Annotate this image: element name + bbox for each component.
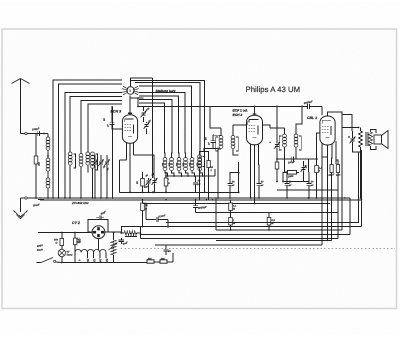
junction	[61, 232, 63, 234]
resistor R5 0.3M	[275, 162, 279, 169]
wire	[134, 155, 155, 160]
wire	[295, 148, 297, 160]
wire	[52, 190, 54, 198]
tube V3 CBL 1	[320, 116, 335, 145]
bus y234.3	[141, 233, 350, 235]
junction	[348, 136, 350, 138]
trimmer osc pad 1	[146, 179, 152, 186]
wire	[331, 173, 333, 241]
wire loop top right	[131, 80, 205, 155]
svg-text:CY 2: CY 2	[72, 221, 80, 225]
wire	[167, 220, 169, 227]
junction	[64, 197, 66, 199]
antenna terminal	[25, 132, 27, 134]
wire CY2 anode box	[88, 220, 108, 233]
mains switch	[36, 262, 41, 264]
junction	[167, 175, 169, 177]
band coil L10	[190, 158, 194, 162]
svg-text:344: 344	[161, 258, 166, 261]
dashed line	[121, 248, 395, 250]
B+ bus y226.7	[141, 226, 362, 228]
ground	[20, 198, 22, 212]
junction	[212, 199, 214, 201]
wire coil bottom	[179, 171, 182, 176]
wire	[47, 189, 49, 199]
junction	[276, 181, 278, 183]
wire switch left loop 3	[65, 93, 122, 198]
capacitor 0,1mF	[155, 217, 157, 222]
wire switch left loop 4	[70, 97, 122, 152]
wire	[232, 149, 234, 155]
junction	[165, 191, 167, 193]
wire	[204, 155, 206, 192]
wire	[142, 172, 144, 179]
junction	[35, 197, 37, 199]
junction	[194, 175, 196, 177]
wire	[204, 152, 209, 161]
wire	[69, 166, 71, 199]
wire	[41, 133, 49, 135]
wire	[143, 106, 145, 111]
junction	[344, 197, 346, 199]
coil L2b	[79, 154, 83, 158]
svg-text:Stellung kurz: Stellung kurz	[156, 89, 176, 93]
mains bottom wire	[62, 262, 130, 264]
wire switch left loop 1	[53, 80, 122, 190]
wire	[47, 134, 49, 138]
band switch S1 rotor	[127, 87, 135, 95]
wire	[94, 155, 96, 161]
junction	[58, 197, 60, 199]
trimmer 50pF	[144, 122, 150, 129]
wire y189.8 right	[277, 189, 338, 191]
wire grid cap V2	[254, 106, 256, 115]
wire	[152, 113, 154, 178]
junction	[69, 197, 71, 199]
trimmer tone	[350, 137, 356, 144]
wire	[360, 128, 362, 132]
switch contact 7	[135, 90, 139, 93]
resistor R4	[207, 161, 210, 168]
wire	[121, 232, 124, 234]
wire	[146, 122, 148, 123]
wire	[218, 149, 221, 198]
junction	[140, 233, 142, 235]
wire	[316, 138, 318, 166]
switch contact 1	[123, 93, 126, 95]
wire	[87, 166, 89, 173]
output transformer secondary	[369, 132, 373, 146]
wire	[191, 86, 193, 158]
wire	[233, 149, 239, 155]
IF2 primary	[283, 134, 287, 138]
resistor R9	[267, 218, 271, 226]
wire V1 pins	[126, 143, 128, 160]
resistor R8	[229, 218, 233, 226]
wire	[47, 151, 49, 159]
wire	[268, 213, 270, 218]
svg-text:5amp: 5amp	[67, 254, 74, 257]
wire	[154, 261, 160, 263]
wire route plate drop	[341, 128, 343, 231]
wire	[215, 198, 217, 230]
wire	[232, 125, 234, 136]
wire	[178, 96, 180, 158]
switch contact 2	[122, 90, 126, 93]
wire	[35, 164, 37, 198]
junction	[316, 197, 318, 199]
wire	[153, 160, 155, 178]
wire V3 pins	[321, 143, 323, 166]
wire	[220, 128, 222, 136]
bus y212.5	[196, 212, 338, 214]
wire	[135, 83, 200, 158]
wire spk	[371, 130, 377, 134]
wire det	[277, 158, 318, 160]
wire switch right loop 5	[139, 103, 165, 152]
power transformer winding	[75, 249, 106, 252]
svg-text:G: G	[168, 182, 170, 185]
wire	[165, 172, 167, 178]
speaker	[374, 135, 382, 144]
wire switch left loop 6	[88, 104, 122, 152]
band coil L11	[198, 158, 202, 162]
bus y244.9	[155, 244, 322, 246]
capacitor 5000pF	[193, 205, 198, 207]
wire coil bottom	[165, 171, 168, 176]
wire IF1 box	[213, 134, 221, 137]
trimmer osc pad 2	[152, 178, 158, 185]
wire	[283, 172, 288, 181]
bus y198	[115, 197, 350, 199]
wire bus y192 riser	[119, 160, 121, 192]
wire	[199, 168, 201, 200]
wire	[130, 261, 147, 263]
band coil L7	[170, 158, 174, 162]
field coil	[111, 240, 116, 255]
pilot lamp	[58, 249, 65, 256]
junction	[173, 175, 175, 177]
wire coil bottom	[192, 171, 195, 176]
wire	[148, 178, 150, 180]
junction	[152, 191, 154, 193]
svg-text:6V: 6V	[67, 251, 70, 254]
switch contact 3	[122, 88, 126, 91]
wire switch left loop 2	[59, 84, 123, 198]
junction	[204, 191, 206, 193]
wire coil bottom	[186, 171, 189, 176]
svg-text:pF: pF	[288, 184, 292, 187]
wire	[61, 233, 63, 239]
wire AVC riser	[276, 106, 278, 138]
junction	[153, 191, 155, 193]
wire antenna to coupling cap	[21, 133, 25, 135]
wire	[61, 257, 63, 263]
switch contact 4	[123, 86, 126, 88]
wire switch top loop	[131, 78, 153, 87]
wire	[296, 106, 302, 134]
wire	[230, 173, 239, 178]
bus y192	[120, 191, 239, 193]
trimmer 100pF	[141, 111, 147, 118]
wire tap	[36, 133, 44, 135]
IF1 primary	[219, 136, 223, 140]
wire	[106, 155, 108, 161]
junction	[100, 197, 102, 199]
wire	[164, 103, 167, 158]
bus y230	[216, 229, 342, 231]
wire	[276, 138, 278, 144]
band coil L6	[163, 158, 167, 162]
wire to CBL1 grid	[255, 105, 308, 107]
wire coil common	[165, 175, 215, 177]
junction	[74, 232, 76, 234]
wire plate V2	[263, 125, 271, 128]
wire route 4	[321, 166, 323, 245]
switch contact 6	[135, 88, 139, 91]
wire	[337, 173, 339, 239]
wire	[47, 172, 49, 179]
resistor mains R	[60, 239, 64, 246]
capacitor 4mF	[98, 215, 100, 219]
resistor R2	[164, 178, 168, 186]
rectifier CY2	[92, 226, 105, 239]
bus y238.5	[141, 238, 338, 240]
svg-text:300: 300	[148, 258, 153, 261]
tube V2 ECF1/ECH3	[247, 115, 263, 145]
resistor 2M antenna	[34, 156, 38, 164]
junction	[250, 197, 252, 199]
junction	[94, 197, 96, 199]
wire top bus 1	[130, 97, 144, 99]
wire	[230, 200, 232, 203]
capacitor 50pF bypass	[256, 183, 261, 185]
tube V1 ECH 3	[122, 115, 137, 144]
junction	[181, 175, 183, 177]
junction	[206, 199, 208, 201]
antenna coil L1c	[46, 178, 50, 182]
svg-text:Ω: Ω	[55, 242, 58, 245]
antenna	[20, 79, 22, 134]
wire	[152, 78, 154, 113]
junction	[195, 199, 197, 201]
wire	[285, 159, 288, 178]
output transformer primary	[359, 131, 363, 147]
transformer core	[365, 132, 367, 146]
wire	[360, 152, 362, 198]
coil L3b	[91, 152, 95, 156]
wire	[297, 171, 300, 173]
capacitor IF1a	[210, 140, 215, 142]
wire	[80, 167, 82, 198]
junction	[308, 181, 310, 183]
junction	[61, 262, 63, 264]
wire	[154, 178, 156, 179]
switch contact 8	[135, 93, 138, 95]
wire V2 left pin	[246, 121, 248, 125]
volume pot	[301, 165, 307, 172]
wire spk2	[371, 146, 377, 150]
wire switch right loop 3	[139, 96, 179, 152]
band coil L9	[184, 158, 188, 162]
bus y203.5	[143, 203, 331, 205]
junction	[165, 199, 167, 201]
resistor R7	[229, 203, 233, 211]
wire	[100, 155, 102, 161]
junction	[52, 197, 54, 199]
coil L3a	[86, 152, 90, 156]
trimmer IF2	[274, 142, 280, 149]
trimmer C-osc3	[104, 159, 110, 166]
bus y199.8	[40, 199, 361, 201]
resistor R3	[141, 203, 145, 211]
capacitor 5000pF coupling	[307, 104, 309, 109]
wire route spk1	[166, 152, 359, 222]
capacitor 50pF bypass	[227, 183, 232, 185]
wire	[113, 233, 115, 240]
trimmer C-osc1	[92, 159, 98, 166]
wire	[112, 106, 114, 197]
junction	[230, 229, 232, 231]
capacitor 100pF antenna coupling	[37, 131, 39, 136]
resistor 2M horizontal	[288, 171, 297, 175]
svg-text:pF: pF	[197, 183, 201, 186]
junction	[129, 191, 131, 193]
wire	[238, 162, 240, 192]
junction	[47, 197, 49, 199]
wire up to B+	[121, 227, 140, 234]
antenna coil L1a	[46, 137, 50, 141]
capacitor C el1	[330, 165, 333, 173]
capacitor C el2	[336, 165, 339, 173]
trimmer C-osc2	[98, 159, 104, 166]
wire OT top	[342, 127, 359, 129]
antenna coil L1b	[46, 158, 50, 162]
junction	[361, 199, 363, 201]
junction	[106, 197, 108, 199]
svg-text:Philips A 43 UM: Philips A 43 UM	[246, 85, 301, 94]
wire coil bottom	[200, 171, 203, 176]
resistor bottom box2	[160, 260, 167, 263]
capacitor 50pF bypass	[284, 183, 289, 185]
junction	[201, 175, 203, 177]
wire xfmr drops	[74, 253, 76, 263]
svg-text:mF: mF	[77, 241, 81, 244]
terminal	[25, 197, 27, 199]
junction	[308, 197, 310, 199]
wire CY2 to xfmr	[98, 239, 100, 250]
capacitor 8mF	[119, 239, 124, 241]
wire route spk2	[360, 150, 362, 227]
wire	[92, 169, 94, 199]
wire	[336, 141, 338, 165]
capacitor det	[291, 156, 293, 161]
resistor R1	[141, 179, 145, 187]
mains bus top	[38, 232, 92, 234]
svg-text:pF: pF	[231, 184, 235, 187]
wire	[308, 172, 310, 178]
oscillator coil L2a	[68, 152, 72, 156]
wire switch right loop 1	[139, 86, 192, 152]
wire	[142, 200, 144, 203]
resistor mains R2	[74, 238, 77, 245]
wire	[342, 112, 352, 131]
wire	[258, 165, 261, 178]
wire switch right loop 2	[139, 93, 185, 153]
svg-text:pF: pF	[208, 142, 211, 146]
band coil L8	[177, 158, 181, 162]
wire	[145, 204, 147, 220]
wire	[200, 149, 219, 155]
svg-text:CBL 1: CBL 1	[307, 116, 317, 120]
wire bridge	[322, 156, 328, 158]
wire route 6	[349, 198, 351, 234]
wire	[27, 133, 36, 135]
junction	[148, 191, 150, 193]
bus y240.4	[216, 239, 332, 241]
wire	[321, 106, 323, 115]
junction	[142, 199, 144, 201]
wire	[284, 128, 286, 134]
wire V3 plate top	[328, 112, 343, 128]
wire grid cap V1	[129, 95, 131, 114]
IF1 secondary	[231, 136, 235, 140]
svg-text:pF: pF	[310, 184, 314, 187]
arrow mark	[109, 243, 118, 251]
junction	[268, 229, 270, 231]
wire top bus 2	[138, 105, 255, 107]
junction	[142, 191, 144, 193]
IF2 secondary	[294, 134, 298, 138]
svg-text:pF: pF	[107, 124, 110, 128]
capacitor 50pF	[193, 181, 198, 183]
smoothing choke	[124, 231, 136, 235]
ground bus left	[21, 197, 116, 199]
capacitor 25	[163, 248, 168, 250]
svg-text:ECH 3: ECH 3	[233, 113, 243, 117]
wire down from cap	[35, 134, 37, 156]
wire	[283, 181, 309, 183]
capacitor 30mF	[38, 197, 44, 199]
wire	[308, 159, 310, 172]
junction	[360, 197, 362, 199]
resistor R6 cathode	[315, 166, 319, 173]
wire left side of V1	[112, 125, 122, 129]
junction	[254, 203, 256, 205]
junction	[187, 175, 189, 177]
wire	[284, 148, 286, 160]
wire	[184, 93, 187, 158]
junction	[80, 197, 82, 199]
svg-text:ZF=452 kHz: ZF=452 kHz	[71, 201, 89, 205]
wire	[171, 100, 174, 158]
coil L-osc2	[198, 155, 202, 159]
wire	[316, 173, 318, 199]
wire coil bottom	[172, 171, 175, 176]
svg-text:pF: pF	[260, 184, 264, 187]
wire	[120, 159, 127, 161]
wire CY2 cathode	[105, 231, 121, 233]
switch contact 5	[135, 86, 138, 88]
wire switch right loop 4	[139, 100, 172, 153]
wire	[230, 213, 232, 218]
wire V2 pins	[250, 144, 252, 199]
capacitor 50pF bypass	[306, 183, 311, 185]
wire switch left loop 5	[81, 100, 122, 153]
resistor bottom box1	[147, 260, 154, 263]
svg-text:ECF 1 od.: ECF 1 od.	[233, 109, 248, 113]
